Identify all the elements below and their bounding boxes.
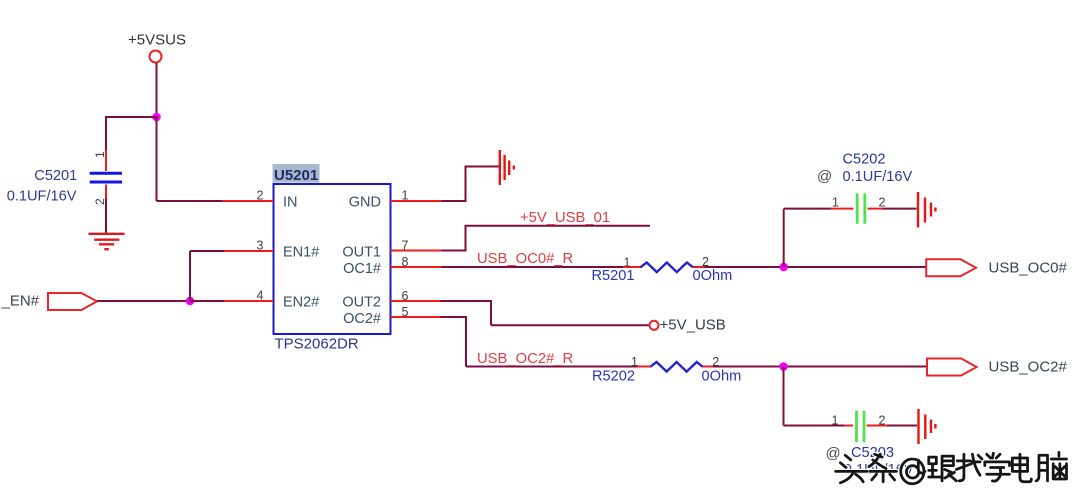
node label _EN# — [1, 293, 40, 310]
svg-text:+5VSUS: +5VSUS — [128, 32, 186, 49]
svg-text:4: 4 — [257, 289, 264, 303]
ground at U5201 pin1 — [500, 150, 514, 185]
C5202 @ mark — [817, 168, 832, 185]
capacitor C5202 reference label — [843, 151, 886, 167]
wire junction to EN1# — [190, 251, 224, 301]
resistor R5201 reference label — [592, 268, 635, 284]
capacitor C5202 value label — [843, 169, 913, 185]
pin number 2 — [257, 189, 264, 203]
capacitor C5202 pin number 1 — [832, 196, 839, 210]
wire C5202 to ground — [883, 208, 917, 210]
resistor R5201 pin number 2 — [702, 255, 709, 269]
capacitor C5201 value label — [7, 188, 77, 204]
resistor R5202 pin number 2 — [712, 355, 719, 369]
power +5V_USB label — [660, 317, 726, 334]
wire OC1# pin8 to R5201 — [442, 266, 624, 268]
wire _EN# to junction — [97, 300, 190, 302]
svg-text:OUT1: OUT1 — [342, 245, 381, 261]
wire junction down to pin2 — [157, 117, 223, 201]
resistor R5201 value 0Ohm — [693, 268, 733, 284]
svg-text:2: 2 — [879, 414, 886, 428]
node junction to C5202 — [779, 263, 788, 272]
svg-text:0Ohm: 0Ohm — [693, 268, 733, 284]
wire OUT2 to +5V_USB — [441, 301, 650, 325]
svg-text:EN2#: EN2# — [283, 295, 319, 311]
node label +5V_USB_01 — [520, 210, 610, 226]
power +5V_USB terminal circle — [650, 321, 659, 330]
svg-text:+5V_USB_01: +5V_USB_01 — [520, 210, 610, 226]
resistor R5201 pin number 1 — [624, 255, 631, 269]
U5201 pin name IN — [283, 195, 298, 211]
resistor R5202 pin stubs — [638, 366, 714, 368]
wire C5203 to ground — [887, 425, 917, 427]
node junction EN split — [186, 297, 195, 306]
pin number 6 — [402, 289, 409, 303]
pin number 3 — [257, 239, 264, 253]
svg-text:@: @ — [817, 168, 832, 185]
svg-text:1: 1 — [631, 355, 638, 369]
connector _EN# input port — [48, 293, 97, 310]
node label USB_OC2#_R — [477, 351, 573, 367]
node label USB_OC2# — [989, 358, 1068, 375]
svg-text:8: 8 — [402, 255, 409, 269]
svg-text:C5201: C5201 — [34, 168, 77, 184]
capacitor C5201 pin stubs — [105, 150, 107, 199]
op-amp U5201 body — [274, 184, 391, 334]
node junction at +5VSUS tap — [152, 113, 161, 122]
svg-text:1: 1 — [93, 151, 107, 158]
svg-text:EN1#: EN1# — [283, 245, 319, 261]
svg-text:R5201: R5201 — [592, 268, 635, 284]
svg-text:7: 7 — [402, 239, 409, 253]
U5201 pin name OC2# — [343, 311, 381, 327]
svg-text:5: 5 — [402, 305, 409, 319]
svg-text:1: 1 — [832, 196, 839, 210]
capacitor C5202 pin stubs — [831, 208, 884, 210]
resistor R5202 pin number 1 — [631, 355, 638, 369]
ground below C5201 — [89, 234, 125, 249]
C5203 @ mark — [826, 445, 841, 462]
wire +5VSUS vertical to junction — [156, 63, 158, 117]
svg-text:1: 1 — [402, 189, 409, 203]
resistor R5201 pin stubs — [623, 266, 705, 268]
svg-text:OC1#: OC1# — [343, 261, 381, 277]
capacitor C5201 pin number 2 — [93, 198, 107, 205]
resistor R5202 reference label — [592, 368, 635, 384]
svg-text:6: 6 — [402, 289, 409, 303]
pin number 7 — [402, 239, 409, 253]
capacitor C5203 plates — [857, 411, 865, 443]
svg-text:TPS2062DR: TPS2062DR — [275, 336, 359, 353]
capacitor C5201 pin number 1 — [93, 151, 107, 158]
wire R5202 to USB_OC2# connector — [713, 366, 927, 368]
wire C5201 to ground — [105, 199, 107, 234]
U5201 left pin stubs — [222, 201, 274, 301]
capacitor C5201 reference label — [34, 168, 77, 184]
resistor R5201 — [641, 263, 693, 273]
wire OUT1 to +5V_USB_01 net — [442, 226, 651, 251]
wire GND pin1 to ground — [442, 167, 500, 202]
U5201 pin name OC1# — [343, 261, 381, 277]
node junction to C5203 — [779, 362, 788, 371]
U5201 part number TPS2062DR — [275, 336, 359, 353]
svg-text:C5202: C5202 — [843, 151, 886, 167]
U5201 pin name EN1# — [283, 245, 319, 261]
svg-text:U5201: U5201 — [274, 167, 318, 184]
svg-text:USB_OC0#_R: USB_OC0#_R — [477, 251, 573, 267]
svg-text:+5V_USB: +5V_USB — [660, 317, 726, 334]
capacitor C5203 value label — [844, 462, 914, 478]
svg-text:_EN#: _EN# — [1, 293, 40, 310]
svg-text:USB_OC0#: USB_OC0# — [989, 260, 1068, 277]
svg-text:0.1UF/16V: 0.1UF/16V — [843, 169, 913, 185]
U5201 pin name EN2# — [283, 295, 319, 311]
node label USB_OC0# — [989, 260, 1068, 277]
node label USB_OC0#_R — [477, 251, 573, 267]
power +5VSUS terminal circle — [150, 51, 162, 63]
svg-text:2: 2 — [93, 198, 107, 205]
svg-text:IN: IN — [283, 195, 298, 211]
svg-text:GND: GND — [349, 195, 381, 211]
pin number 5 — [402, 305, 409, 319]
capacitor C5203 pin number 2 — [879, 414, 886, 428]
svg-text:OC2#: OC2# — [343, 311, 381, 327]
watermark text 头条@跟我学电脑 — [836, 452, 1067, 483]
capacitor C5203 reference label — [851, 445, 894, 461]
capacitor C5201 plates — [90, 173, 122, 182]
svg-text:0Ohm: 0Ohm — [702, 368, 742, 384]
svg-text:OUT2: OUT2 — [342, 295, 381, 311]
svg-text:2: 2 — [257, 189, 264, 203]
pin number 1 — [402, 189, 409, 203]
svg-text:2: 2 — [879, 196, 886, 210]
power +5VSUS label — [128, 32, 186, 49]
svg-text:1: 1 — [832, 414, 839, 428]
U5201 pin name GND — [349, 195, 381, 211]
capacitor C5203 pin number 1 — [832, 414, 839, 428]
svg-text:R5202: R5202 — [592, 368, 635, 384]
wire junction up to C5202 — [784, 209, 831, 267]
capacitor C5202 pin number 2 — [879, 196, 886, 210]
ground at C5202 — [918, 192, 935, 228]
capacitor C5202 plates — [857, 193, 865, 223]
wire R5201 to USB_OC0# connector — [705, 266, 927, 268]
U5201 pin name OUT2 — [342, 295, 381, 311]
svg-text:0.1UF/16V: 0.1UF/16V — [7, 188, 77, 204]
ground at C5203 — [919, 409, 936, 444]
op-amp U5201 reference highlight — [273, 164, 320, 184]
U5201 right pin stubs — [391, 201, 442, 317]
resistor R5202 — [650, 362, 702, 372]
svg-text:@: @ — [826, 445, 841, 462]
svg-text:USB_OC2#_R: USB_OC2#_R — [477, 351, 573, 367]
pin number 8 — [402, 255, 409, 269]
capacitor C5203 pin stubs — [845, 425, 887, 427]
wire junction to C5201 branch — [106, 117, 158, 150]
wire junction down to C5203 — [784, 367, 845, 426]
svg-text:USB_OC2#: USB_OC2# — [989, 358, 1068, 375]
pin number 4 — [257, 289, 264, 303]
wire OC2# pin5 down to row — [441, 317, 638, 367]
watermark halo — [836, 452, 1067, 483]
connector USB_OC0# output port — [926, 259, 976, 276]
connector USB_OC2# output port — [927, 359, 977, 376]
U5201 pin name OUT1 — [342, 245, 381, 261]
svg-text:3: 3 — [257, 239, 264, 253]
resistor R5202 value 0Ohm — [702, 368, 742, 384]
